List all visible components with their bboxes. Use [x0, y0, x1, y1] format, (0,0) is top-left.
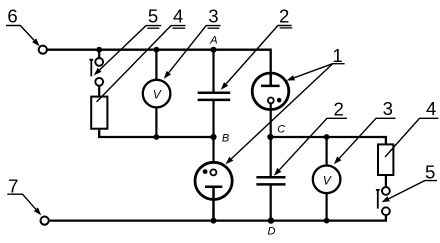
- terminal 7: [41, 217, 49, 225]
- svg-text:B: B: [222, 132, 229, 144]
- label 2 (right capacitor) leader: [279, 118, 347, 170]
- switch SA2 lever: [376, 190, 380, 209]
- label 3 (left voltmeter) leader: [208, 27, 220, 29]
- svg-text:D: D: [268, 226, 276, 238]
- tube VL2 gas dot: [203, 169, 208, 174]
- tube VL1 anode bar: [261, 73, 280, 86]
- node A junction dot: [211, 47, 217, 53]
- tube VL2 (lower phototube): [195, 162, 232, 199]
- svg-text:V: V: [323, 173, 332, 187]
- svg-text:7: 7: [8, 176, 18, 197]
- wire capacitor C1 leads: [212, 50, 214, 137]
- label 5 (left switch) leader: [147, 27, 159, 29]
- voltmeter V1: [143, 80, 171, 108]
- svg-text:V: V: [153, 88, 162, 102]
- svg-text:1: 1: [332, 45, 342, 66]
- tube VL2 cathode dot: [210, 169, 216, 175]
- node C junction dot: [267, 134, 273, 140]
- svg-text:2: 2: [279, 5, 289, 26]
- capacitor C2: [256, 177, 285, 184]
- label 5 (right switch) leader: [389, 181, 437, 199]
- label 3 (right voltmeter) leader: [339, 118, 395, 158]
- svg-text:3: 3: [383, 98, 393, 119]
- svg-text:4: 4: [173, 5, 183, 26]
- wire voltmeter V2 leads: [326, 137, 328, 221]
- terminal 6: [39, 46, 47, 54]
- svg-text:3: 3: [208, 5, 218, 26]
- tube VL1 (upper phototube): [252, 73, 289, 110]
- switch SA2 contacts: [382, 187, 390, 195]
- svg-text:2: 2: [334, 98, 344, 119]
- wire bottom rail: [49, 215, 386, 221]
- svg-text:C: C: [277, 123, 285, 135]
- svg-text:4: 4: [426, 98, 436, 119]
- wire middle rail left: [99, 130, 213, 137]
- node D junction dot: [268, 217, 274, 223]
- wire middle rail right: [270, 137, 386, 144]
- label 7 leader: [7, 194, 36, 209]
- tube VL1 gas dot: [277, 98, 282, 103]
- node junction dot top rail at V1: [154, 47, 160, 53]
- resistor R2: [378, 144, 393, 175]
- svg-text:A: A: [209, 35, 217, 47]
- label 6 leader: [6, 26, 34, 41]
- wire voltmeter V1 leads: [155, 50, 157, 137]
- wire tube VL2 top lead: [212, 137, 214, 169]
- node junction dot bottom rail at V2 bottom: [324, 218, 330, 224]
- wire capacitor C2 leads: [270, 137, 272, 221]
- switch SA1 contacts: [95, 58, 103, 66]
- svg-text:6: 6: [7, 5, 17, 26]
- voltmeter V2: [313, 166, 341, 194]
- capacitor C1: [198, 93, 231, 100]
- switch SA1 lever: [89, 60, 93, 77]
- label 4 (right resistor) leader: [385, 118, 439, 157]
- tube VL1 cathode dot: [268, 98, 274, 104]
- svg-text:5: 5: [148, 5, 158, 26]
- node junction dot bottom rail at VL2: [211, 218, 217, 224]
- tube VL2 anode bar: [205, 187, 222, 221]
- node junction dot top rail at switch branch: [96, 47, 102, 53]
- node junction dot mid rail at V1 bottom: [154, 134, 160, 140]
- label 4 (left resistor) leader: [172, 27, 185, 29]
- wire resistor R2 to switch2: [385, 175, 387, 187]
- resistor R1: [91, 97, 107, 129]
- wire top rail: [47, 50, 271, 73]
- node B junction dot: [210, 134, 216, 140]
- wire tube VL1 bottom lead: [270, 103, 272, 137]
- label 1 leaders (both tubes): [294, 64, 345, 78]
- node junction dot mid rail at V2 top: [324, 134, 330, 140]
- svg-text:5: 5: [425, 162, 435, 183]
- label 2 (left capacitor) leader: [280, 27, 293, 29]
- wire switch1 branch: [98, 50, 100, 97]
